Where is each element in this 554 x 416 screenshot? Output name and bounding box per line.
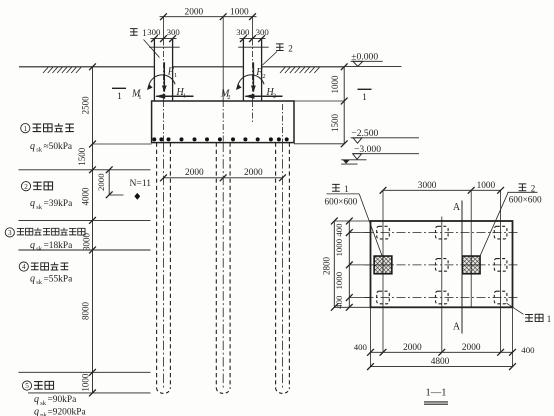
plan: dim chain 400/1000/1000/400 left: [334, 218, 353, 311]
line under filled triangle: [341, 163, 357, 165]
pile P1 outline (dashed): [157, 143, 171, 394]
svg-text:q: q: [34, 406, 39, 416]
force H2 arrow: [245, 95, 282, 97]
svg-text:2000: 2000: [96, 173, 106, 191]
plan: pile r1c3: [494, 226, 507, 239]
cap bottom rebar dots: [152, 137, 288, 141]
label layer 3 qsk: [30, 240, 73, 253]
svg-text:1000: 1000: [330, 75, 340, 94]
svg-text:1: 1: [362, 93, 367, 103]
svg-text:1: 1: [142, 28, 147, 38]
plan: ext bottom-left: [334, 306, 370, 308]
soil boundary layer4/5: [19, 371, 151, 373]
ground hatch right: [280, 67, 320, 73]
label layer 5 粗砂: [22, 381, 53, 390]
plan: 角桩1 leader: [507, 303, 524, 314]
plan: pile r3c2: [436, 291, 449, 304]
plan: pile r2c2: [436, 259, 449, 272]
label layer 5 qpk: [34, 406, 86, 416]
svg-text:2000: 2000: [462, 343, 481, 353]
tick left chain boundary 1/2: [89, 166, 96, 173]
pile P2 axis: [222, 143, 224, 390]
svg-text:2: 2: [227, 94, 230, 101]
svg-text:N=11: N=11: [130, 178, 152, 189]
level line -3.000: [341, 159, 366, 161]
svg-text:2500: 2500: [80, 96, 90, 115]
svg-text:3000: 3000: [418, 181, 437, 191]
svg-text:2000: 2000: [185, 168, 204, 178]
plan: pile column 2 axis: [441, 217, 443, 353]
plan: cap outline: [371, 221, 513, 307]
dim 2000 2000 pile spacing: [160, 168, 286, 181]
tick right ground: [341, 63, 348, 70]
svg-text:2: 2: [273, 92, 276, 99]
plan: label 角桩1: [525, 314, 551, 324]
soil boundary layer1/2: [19, 169, 151, 171]
pile 3 axis in cap: [282, 104, 284, 143]
svg-text:400: 400: [354, 342, 368, 352]
elevation -2.500 underline: [351, 137, 419, 139]
plan: axis over column 2 hatch: [462, 264, 480, 266]
label layer 4 粉质黏土: [19, 262, 68, 271]
svg-text:=90kPa: =90kPa: [48, 395, 78, 405]
sub-dim 2000 (SPT depth): [96, 166, 124, 198]
svg-text:1: 1: [138, 94, 141, 101]
ground line ±0.000 (left of column 1): [19, 66, 154, 68]
svg-text:−3.000: −3.000: [354, 144, 381, 155]
tick right cap bottom: [341, 140, 348, 147]
svg-text:1000: 1000: [230, 8, 249, 18]
svg-text:1000: 1000: [80, 373, 90, 392]
tick top left: [160, 13, 167, 20]
pile P2 outline (dashed): [216, 143, 230, 394]
pile cap outline: [152, 101, 294, 143]
plan: pile column 1 axis: [382, 190, 384, 352]
plan: ext right edge down: [512, 307, 514, 366]
tick left chain pile tip: [89, 390, 96, 397]
dim line left chain: [92, 67, 94, 393]
svg-text:2000: 2000: [403, 343, 422, 353]
elevation ±0.000 underline: [351, 60, 383, 62]
plan: ext row2: [349, 264, 370, 266]
plan: pile r3c3: [494, 291, 507, 304]
svg-text:=18kPa: =18kPa: [44, 241, 74, 251]
ground line (right of column 2): [262, 66, 345, 68]
extension line column2 axis: [252, 17, 254, 39]
plan: row 2 centerline: [365, 264, 518, 266]
leader 柱1: [144, 40, 160, 58]
svg-text:1000: 1000: [334, 271, 344, 289]
extension line column1 axis: [163, 17, 165, 39]
dim line right: [343, 67, 345, 144]
svg-text:600×600: 600×600: [509, 194, 542, 204]
force F1 arrow: [163, 62, 165, 91]
plan: ext top-left: [334, 220, 370, 222]
force H1 arrow: [156, 95, 193, 97]
tick left chain -2.5 level: [89, 141, 96, 148]
tick left chain boundary 4/5: [89, 369, 96, 376]
dim 300 300 over column 2: [236, 27, 269, 42]
elevation -2.500 triangle: [353, 138, 362, 143]
label layer 3 淤泥质粉质黏土: [5, 228, 85, 237]
svg-text:600×600: 600×600: [325, 196, 358, 206]
dim line top: [160, 16, 257, 18]
level extension -2.500 left: [93, 143, 152, 145]
level line ±0.000: [344, 65, 401, 67]
svg-text:q: q: [30, 198, 35, 209]
plan: column 2 section (hatched): [462, 256, 480, 274]
svg-text:A: A: [453, 322, 461, 333]
column 2 axis in cap: [252, 101, 254, 124]
section mark 1 (right): [358, 89, 372, 103]
elevation -3.000 underline: [353, 153, 419, 155]
pile P3 axis: [282, 143, 284, 390]
svg-text:400: 400: [334, 223, 344, 237]
plan: dim chain 400/2000/2000/400 bottom: [354, 342, 535, 356]
extension cap top to dim: [294, 100, 344, 102]
plan: label 柱2: [519, 183, 536, 193]
svg-text:1: 1: [183, 92, 186, 99]
pile P1 axis: [163, 143, 165, 390]
tick left chain ground: [89, 63, 96, 70]
SPT point diamond: [134, 193, 140, 200]
soil boundary layer2/3: [19, 219, 151, 221]
svg-text:2800: 2800: [321, 257, 331, 276]
plan: section line A-A: [461, 201, 463, 334]
label 柱2: [276, 44, 293, 54]
plan: column 1 section (hatched): [374, 256, 392, 274]
tick left chain boundary 2/3: [89, 217, 96, 224]
svg-text:3: 3: [8, 229, 12, 237]
svg-text:sk: sk: [36, 246, 43, 253]
plan: ext left edge down: [370, 307, 372, 366]
svg-text:1: 1: [24, 125, 28, 133]
section mark 1 (left): [112, 88, 126, 102]
svg-text:sk: sk: [40, 400, 47, 407]
tick right cap top: [341, 98, 348, 105]
svg-text:400: 400: [334, 295, 344, 309]
svg-text:q: q: [30, 274, 35, 285]
svg-text:=9200kPa: =9200kPa: [48, 407, 87, 416]
svg-text:=39kPa: =39kPa: [44, 199, 74, 209]
svg-text:4800: 4800: [431, 357, 450, 367]
label layer 1 粉质黏土: [21, 123, 74, 133]
svg-text:300: 300: [236, 27, 250, 37]
svg-text:1: 1: [174, 72, 177, 79]
svg-text:sk: sk: [36, 279, 43, 286]
plan: dim 3000/1000 top: [380, 181, 504, 194]
svg-text:≈50kPa: ≈50kPa: [44, 142, 73, 152]
svg-text:300: 300: [256, 27, 270, 37]
svg-text:8000: 8000: [80, 302, 90, 321]
svg-text:1500: 1500: [330, 114, 340, 133]
svg-text:q: q: [30, 240, 35, 251]
label layer 5 qsk: [34, 394, 77, 407]
extension cap bottom to dim: [294, 143, 344, 145]
svg-text:400: 400: [521, 345, 535, 355]
svg-text:5: 5: [25, 382, 29, 390]
plan: pile column 3 axis: [500, 190, 502, 352]
extension line pile2 axis: [222, 17, 224, 101]
pile 1 axis in cap: [163, 101, 165, 143]
plan: axis over column 1 hatch: [374, 264, 392, 266]
column 1 (柱1) shaft: [149, 39, 180, 101]
plan: ext row3: [349, 297, 370, 299]
plan: pile r2c3: [494, 259, 507, 272]
moment M1 arrow: [149, 75, 175, 86]
label layer 1 qsk: [30, 141, 73, 154]
plan: pile r3c1: [377, 291, 390, 304]
moment M2 arrow: [238, 75, 264, 86]
svg-text:2: 2: [531, 183, 536, 193]
plan: dim 4800: [367, 357, 516, 370]
svg-text:2: 2: [24, 183, 28, 191]
column 2 (柱2) shaft: [238, 39, 269, 101]
svg-text:2: 2: [288, 44, 293, 54]
svg-text:4000: 4000: [80, 187, 90, 206]
plan: 柱2 leader: [508, 191, 538, 193]
tick top right: [249, 13, 256, 20]
label layer 2 qsk: [30, 198, 73, 211]
svg-text:1: 1: [547, 314, 552, 324]
svg-text:sk: sk: [36, 204, 43, 211]
svg-text:1: 1: [117, 92, 122, 102]
svg-text:4: 4: [22, 263, 26, 271]
elevation -3.000 triangle: [353, 154, 362, 160]
ground line (between columns): [173, 66, 244, 68]
svg-text:300: 300: [167, 27, 181, 37]
label layer 4 qsk: [30, 274, 73, 287]
plan: row 1 centerline: [365, 232, 518, 234]
svg-text:pk: pk: [40, 412, 47, 416]
svg-text:1500: 1500: [77, 147, 87, 166]
svg-text:−2.500: −2.500: [351, 128, 378, 139]
plan: 柱1 leader: [327, 193, 360, 195]
svg-text:1000: 1000: [477, 181, 496, 191]
svg-text:1000: 1000: [334, 238, 344, 256]
plan: ext row1: [349, 232, 370, 234]
pile P3 outline (dashed): [276, 143, 290, 394]
dim 300 300 over column 1: [147, 27, 180, 42]
plan: row 3 centerline: [365, 297, 518, 299]
svg-text:sk: sk: [36, 146, 43, 153]
plan: dim 2800 left: [321, 218, 337, 311]
svg-text:A: A: [453, 202, 461, 213]
tick top middle: [220, 13, 227, 20]
soil boundary layer3/4: [19, 249, 151, 251]
elevation ±0.000 triangle: [353, 61, 363, 66]
force F2 arrow: [252, 62, 254, 91]
svg-text:1: 1: [344, 184, 349, 194]
label layer 2 细砂: [21, 182, 52, 191]
plan: label 柱1: [332, 184, 349, 194]
plan: pile r1c1: [377, 226, 390, 239]
svg-text:q: q: [34, 394, 39, 405]
svg-text:2000: 2000: [185, 8, 204, 18]
svg-text:1—1: 1—1: [426, 387, 447, 398]
plan: pile r1c2: [436, 226, 449, 239]
svg-text:300: 300: [147, 27, 161, 37]
title 1&#8212;1: [424, 387, 448, 404]
svg-text:=55kPa: =55kPa: [44, 275, 74, 285]
pile 2 axis in cap: [222, 101, 224, 143]
leader 柱2: [263, 52, 278, 66]
svg-text:q: q: [30, 141, 35, 152]
label 柱1: [130, 28, 147, 38]
pile tip level line: [28, 392, 151, 394]
ground level filled triangle: [343, 160, 350, 164]
ground hatch left: [43, 67, 81, 73]
tick left chain boundary 3/4: [89, 247, 96, 254]
svg-text:2000: 2000: [244, 168, 263, 178]
svg-text:2: 2: [262, 73, 265, 80]
plan: column 2 axis: [470, 190, 472, 307]
